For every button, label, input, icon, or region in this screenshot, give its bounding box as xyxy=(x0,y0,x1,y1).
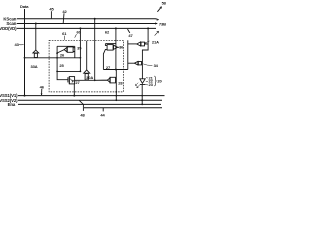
svg-text:VDD(VD): VDD(VD) xyxy=(0,26,17,31)
wire VDD feed C xyxy=(147,27,149,29)
label 48 xyxy=(82,104,84,111)
wire 33A gate xyxy=(35,24,37,51)
transistor 21A xyxy=(137,42,141,46)
wire VDD rail xyxy=(17,27,156,29)
wire VSS2 rail xyxy=(18,99,162,101)
svg-text:25: 25 xyxy=(59,63,64,68)
svg-text:23: 23 xyxy=(149,82,154,87)
wire Ena rail xyxy=(18,103,161,105)
svg-text:73B: 73B xyxy=(159,21,166,26)
svg-text:42: 42 xyxy=(62,9,67,14)
svg-text:20: 20 xyxy=(157,79,162,84)
svg-text:35: 35 xyxy=(77,45,82,50)
transistor 28 xyxy=(110,77,116,83)
svg-text:45: 45 xyxy=(49,7,54,12)
wire rail4 xyxy=(79,100,83,104)
junction dot data-feed xyxy=(24,57,26,59)
transistor 33A xyxy=(33,50,39,53)
wire 21A gate xyxy=(128,43,137,45)
wire node26 mid xyxy=(57,70,80,72)
label 20 brace xyxy=(154,76,156,86)
wire cap out xyxy=(75,79,108,81)
dashed box 60 xyxy=(49,40,123,92)
wire Scan rail xyxy=(17,23,157,25)
oled 20 xyxy=(140,79,145,84)
wire latch output xyxy=(127,40,129,69)
transistor 30A gate xyxy=(86,41,88,70)
wire data line vertical xyxy=(24,9,26,96)
svg-text:26: 26 xyxy=(60,53,65,58)
svg-text:58: 58 xyxy=(162,1,167,6)
svg-text:21A: 21A xyxy=(152,39,159,44)
svg-text:47: 47 xyxy=(128,33,133,38)
svg-text:27: 27 xyxy=(75,80,80,85)
svg-text:Ena: Ena xyxy=(8,102,16,107)
wire oled cathode xyxy=(141,85,143,105)
transistor 34 xyxy=(135,61,138,65)
svg-text:46: 46 xyxy=(40,84,45,89)
wire KScan feed xyxy=(94,18,96,20)
svg-text:44: 44 xyxy=(100,113,105,118)
junction dot scan-33A xyxy=(35,23,37,25)
transistor 30A xyxy=(84,70,90,73)
svg-text:61: 61 xyxy=(62,31,67,36)
svg-text:34: 34 xyxy=(154,63,159,68)
svg-text:28: 28 xyxy=(118,80,123,85)
svg-text:62: 62 xyxy=(105,30,110,35)
node 26 vertical xyxy=(57,46,68,79)
arrow VDD end xyxy=(155,31,159,35)
svg-text:33A: 33A xyxy=(30,64,37,69)
svg-text:43: 43 xyxy=(14,42,19,47)
wire KScan rail xyxy=(17,18,159,21)
svg-text:30A: 30A xyxy=(86,75,93,80)
transistor 35 xyxy=(57,50,64,53)
svg-text:Data: Data xyxy=(20,4,29,9)
wire VDD feed A xyxy=(79,27,81,29)
wire 34 gate xyxy=(128,62,135,64)
wire VSS1 rail xyxy=(18,95,165,97)
wire node26 top xyxy=(57,45,75,47)
wire data feed xyxy=(25,57,81,59)
junction dot data-VSS1 xyxy=(24,95,26,97)
svg-text:48: 48 xyxy=(80,112,85,117)
capacitor 24 xyxy=(67,77,69,82)
wire cap to VSS1 xyxy=(73,84,75,96)
wire VDD feed B xyxy=(115,27,117,29)
wire 28 drain xyxy=(115,70,117,101)
wire node 27 xyxy=(103,69,127,71)
label 44 xyxy=(102,108,104,112)
transistor 36 xyxy=(105,43,116,45)
